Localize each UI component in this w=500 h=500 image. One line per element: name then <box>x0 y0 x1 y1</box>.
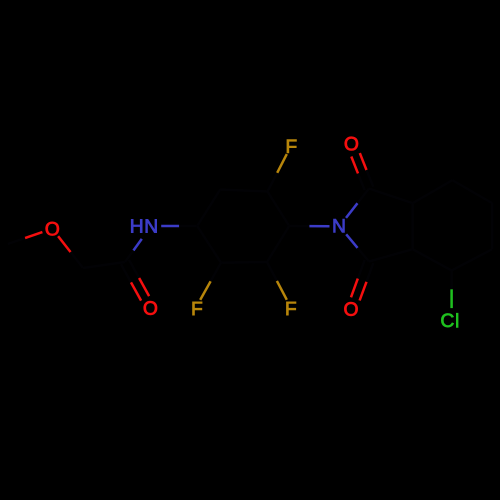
bond CH2-C carbonyl <box>83 262 125 268</box>
atom label O imide top <box>345 137 358 151</box>
bond C-Cl <box>450 271 453 309</box>
bond C-F bottom right <box>267 262 287 300</box>
atom label O amide carbonyl <box>144 301 157 315</box>
atom label O imide bottom <box>344 302 357 316</box>
bond N-C3 imide <box>346 234 369 261</box>
bond ring-N imide <box>289 225 329 228</box>
amide C=O double bond <box>121 260 149 301</box>
bond C1-C7a <box>369 189 413 204</box>
bond O-CH2 <box>58 236 83 268</box>
imide bottom C=O double bond <box>351 260 373 301</box>
bond C3-C3a <box>369 249 413 261</box>
benzene ring (trifluorophenyl) C-C bonds <box>197 190 289 263</box>
bond N-C1 imide <box>346 189 369 218</box>
benzo ring of phthalimide <box>413 180 493 270</box>
bond C-F bottom left <box>200 263 221 300</box>
atom label F bottom right <box>287 302 296 315</box>
atom label H of amide NH <box>131 219 142 232</box>
atom label F bottom left <box>193 302 202 315</box>
atom label F top <box>287 140 296 153</box>
bond O-CH3 methyl <box>8 232 43 244</box>
bond HN-ring C1 <box>161 225 197 228</box>
bond C-F top <box>268 154 287 191</box>
atom label N imide <box>334 219 345 232</box>
bond HN-C carbonyl <box>125 239 142 262</box>
imide top C=O double bond <box>351 153 373 190</box>
atom label Cl <box>441 313 458 327</box>
atom label O methoxy <box>46 222 59 236</box>
atom label N amide <box>146 219 157 232</box>
